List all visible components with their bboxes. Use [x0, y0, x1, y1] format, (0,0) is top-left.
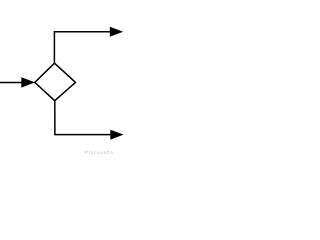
decision diamond — [35, 63, 76, 100]
wire: incoming horizontal from left edge — [0, 82, 23, 84]
wire: bottom branch vertical segment — [54, 101, 56, 135]
wire: top branch vertical segment — [53, 32, 55, 64]
wire: bottom branch horizontal segment — [54, 134, 111, 136]
arrowhead into diamond left vertex — [22, 78, 35, 88]
arrowhead top-right — [110, 27, 122, 36]
arrowhead bottom-right — [111, 130, 123, 139]
wire: top branch horizontal segment — [54, 31, 111, 33]
svg-text:ProcessOn: ProcessOn — [85, 150, 114, 155]
